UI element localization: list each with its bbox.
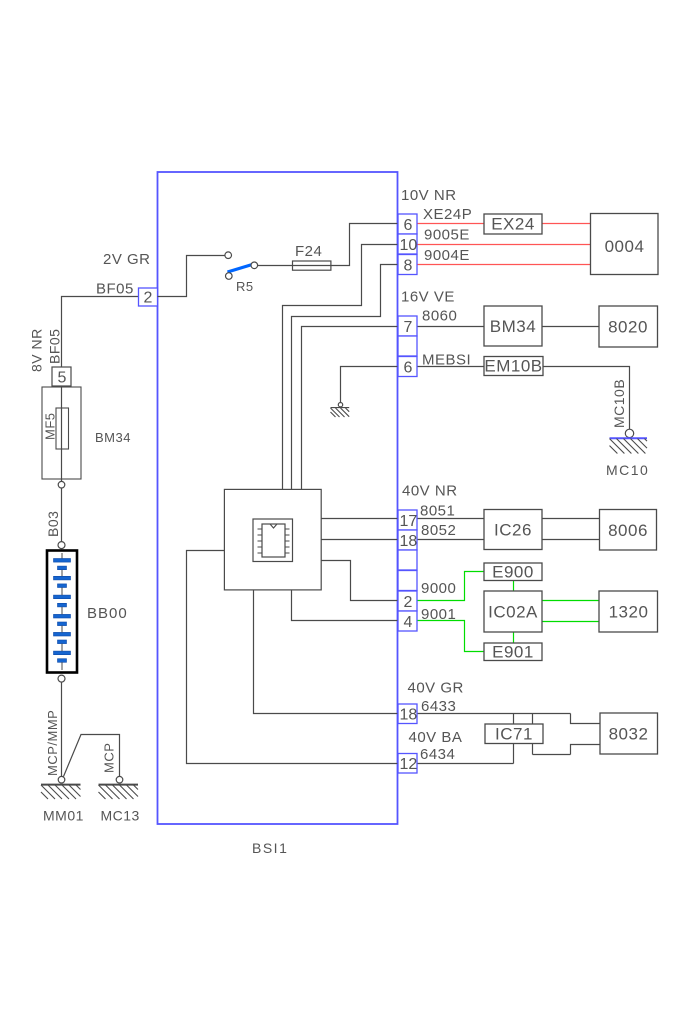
pin 4 (9001) <box>398 611 417 631</box>
device 8020 <box>599 306 658 347</box>
wire microcontroller to pin17 <box>321 518 398 520</box>
fuse holder BM34 (MF5) <box>42 387 131 479</box>
wire IC02A to E901 (green) <box>513 632 515 643</box>
svg-text:E901: E901 <box>492 643 534 662</box>
connector E901 <box>484 643 542 662</box>
svg-text:2: 2 <box>404 594 413 611</box>
wire microcontroller to pin4 <box>292 590 399 621</box>
pin 6 (MEBSI) <box>398 357 417 377</box>
wire pin5 through fuse MF5 <box>61 386 63 481</box>
wire pin8 to microcontroller <box>292 265 399 490</box>
pin 6 (10V) <box>398 214 417 234</box>
connector shell bottom <box>533 754 571 756</box>
device 8006 <box>600 510 657 551</box>
wire switch to fuse F24 to pin 6 <box>258 224 398 266</box>
device 8032 <box>600 713 658 754</box>
svg-text:9001: 9001 <box>421 606 456 623</box>
svg-text:7: 7 <box>404 319 413 336</box>
svg-text:EX24: EX24 <box>491 215 535 234</box>
wire 6433 and connector shell <box>417 713 571 715</box>
wire pin10 to microcontroller <box>283 245 399 490</box>
svg-text:9004E: 9004E <box>424 247 470 264</box>
svg-text:9005E: 9005E <box>424 227 470 244</box>
svg-text:XE24P: XE24P <box>423 206 472 223</box>
svg-text:8052: 8052 <box>421 522 456 539</box>
wire branch to MC13 <box>64 735 120 777</box>
svg-text:BSI1: BSI1 <box>252 840 288 856</box>
switch R5 <box>225 252 258 294</box>
internal ground (MEBSI) <box>331 403 350 418</box>
wire E900 to IC02A (green) <box>513 581 515 592</box>
svg-text:8: 8 <box>404 258 413 275</box>
connector EX24 <box>484 214 542 234</box>
wire IC71 bottom to 6434 <box>513 744 515 764</box>
svg-text:4: 4 <box>404 614 413 631</box>
connector EM10B <box>484 357 543 376</box>
svg-text:2: 2 <box>144 290 153 307</box>
svg-text:18: 18 <box>400 533 418 550</box>
svg-text:IC71: IC71 <box>495 725 533 744</box>
connector stub to 8032 lower <box>571 745 601 755</box>
device IC02A <box>484 591 542 632</box>
wire pin2 to switch R5 <box>158 256 225 297</box>
pin 12 (6434) <box>398 754 417 774</box>
wire IC02A to 1320 lower (green) <box>542 621 599 623</box>
microcontroller U1 <box>224 489 321 590</box>
svg-text:MCP: MCP <box>102 743 117 773</box>
wire 9005E (red) <box>417 244 591 246</box>
wire 9001 (green) <box>417 621 484 652</box>
svg-text:5: 5 <box>58 370 67 387</box>
ground MM01 <box>41 776 84 823</box>
svg-text:BM34: BM34 <box>490 317 536 336</box>
pin (empty, 16V) <box>398 336 417 356</box>
svg-text:8020: 8020 <box>608 318 648 337</box>
pin 5 of BM34 <box>52 367 71 387</box>
svg-text:40V BA: 40V BA <box>409 729 463 746</box>
pin (empty, 40V b) <box>398 571 417 591</box>
svg-text:6: 6 <box>404 360 413 377</box>
svg-text:MF5: MF5 <box>43 413 58 441</box>
battery BB00 <box>47 551 128 673</box>
svg-text:MC10: MC10 <box>606 462 649 478</box>
svg-text:12: 12 <box>400 756 418 773</box>
svg-text:MC13: MC13 <box>101 808 140 824</box>
wire stub to IC71 top <box>513 714 515 725</box>
wire 10V XE24P (red) <box>417 223 484 225</box>
wire through IC71 <box>532 714 534 755</box>
svg-text:40V GR: 40V GR <box>408 680 464 697</box>
ground MC10 <box>606 379 649 478</box>
svg-text:EM10B: EM10B <box>484 357 542 376</box>
wire 8060 <box>417 326 484 328</box>
pin 18 (8052) <box>398 530 417 550</box>
wire pin2 to BF05 fuse (left of BSI1) <box>62 297 139 368</box>
svg-text:R5: R5 <box>236 279 254 294</box>
svg-text:0004: 0004 <box>605 237 645 256</box>
ECU box BSI1 <box>158 172 398 824</box>
svg-text:8060: 8060 <box>422 308 457 325</box>
pin 18 (6433) <box>398 704 417 724</box>
svg-text:6: 6 <box>404 217 413 234</box>
svg-text:10: 10 <box>400 237 418 254</box>
connector IC71 <box>485 724 543 744</box>
wire MCP/MMP <box>61 682 63 776</box>
wire microcontroller to pin12 (6434) <box>187 551 399 764</box>
svg-text:8032: 8032 <box>609 725 649 744</box>
pin (empty, 40V) <box>398 550 417 570</box>
pin 2 (9000) <box>398 591 417 611</box>
wire pin6 MEBSI to internal ground <box>341 367 399 403</box>
svg-text:9000: 9000 <box>421 580 456 597</box>
wire 8051 <box>417 518 484 520</box>
svg-text:B03: B03 <box>45 511 61 537</box>
node below battery <box>58 675 65 682</box>
wire IC02A to 1320 (green) <box>542 600 599 602</box>
fuse F24 <box>293 243 331 270</box>
wire MEBSI to EM10B and ground MC10 <box>417 366 484 368</box>
node below BM34 <box>58 481 65 488</box>
svg-text:BF05: BF05 <box>47 329 63 364</box>
svg-text:MM01: MM01 <box>43 808 84 824</box>
svg-text:1320: 1320 <box>609 603 649 622</box>
wire 6434 <box>417 763 514 765</box>
device BM34 <box>484 306 542 346</box>
pin 7 <box>398 316 417 336</box>
svg-text:10V NR: 10V NR <box>401 187 457 204</box>
connector E900 <box>484 563 542 582</box>
svg-text:BB00: BB00 <box>87 605 128 622</box>
pin 8 <box>398 255 417 275</box>
svg-text:BF05: BF05 <box>96 281 134 298</box>
connector stub to 8032 upper <box>571 714 601 724</box>
wire microcontroller to pin2 <box>321 561 398 601</box>
svg-text:8006: 8006 <box>608 521 648 540</box>
pin 10 <box>398 234 417 254</box>
pin 2 (BSI1 left) <box>139 288 158 307</box>
wire pin7 to microcontroller <box>302 327 399 490</box>
wire B03 <box>61 488 63 542</box>
device 0004 <box>591 214 659 275</box>
svg-text:18: 18 <box>400 707 418 724</box>
svg-text:IC26: IC26 <box>494 521 532 540</box>
svg-text:MEBSI: MEBSI <box>422 352 471 369</box>
svg-text:E900: E900 <box>492 563 534 582</box>
ground MC13 <box>99 776 140 823</box>
wire 8052 <box>417 539 484 541</box>
pin 17 <box>398 510 417 530</box>
svg-text:16V VE: 16V VE <box>401 289 455 306</box>
node above battery <box>58 542 65 549</box>
device IC26 <box>484 510 542 550</box>
svg-text:17: 17 <box>400 513 418 530</box>
svg-text:40V NR: 40V NR <box>402 483 458 500</box>
svg-text:MC10B: MC10B <box>611 379 627 428</box>
svg-text:BM34: BM34 <box>95 430 131 445</box>
wire 9000 (green) <box>417 572 484 601</box>
svg-text:F24: F24 <box>295 243 322 260</box>
wire microcontroller to pin18 (6433) <box>254 590 399 714</box>
svg-text:8051: 8051 <box>420 503 455 520</box>
wire microcontroller to pin18 <box>321 539 398 541</box>
wire 9004E (red) <box>417 264 591 266</box>
device 1320 <box>599 591 658 632</box>
svg-text:IC02A: IC02A <box>488 603 538 622</box>
svg-text:6433: 6433 <box>421 698 456 715</box>
svg-text:6434: 6434 <box>420 746 455 763</box>
svg-text:8V NR: 8V NR <box>29 328 45 372</box>
svg-text:MCP/MMP: MCP/MMP <box>45 710 60 776</box>
svg-text:2V GR: 2V GR <box>103 251 151 268</box>
